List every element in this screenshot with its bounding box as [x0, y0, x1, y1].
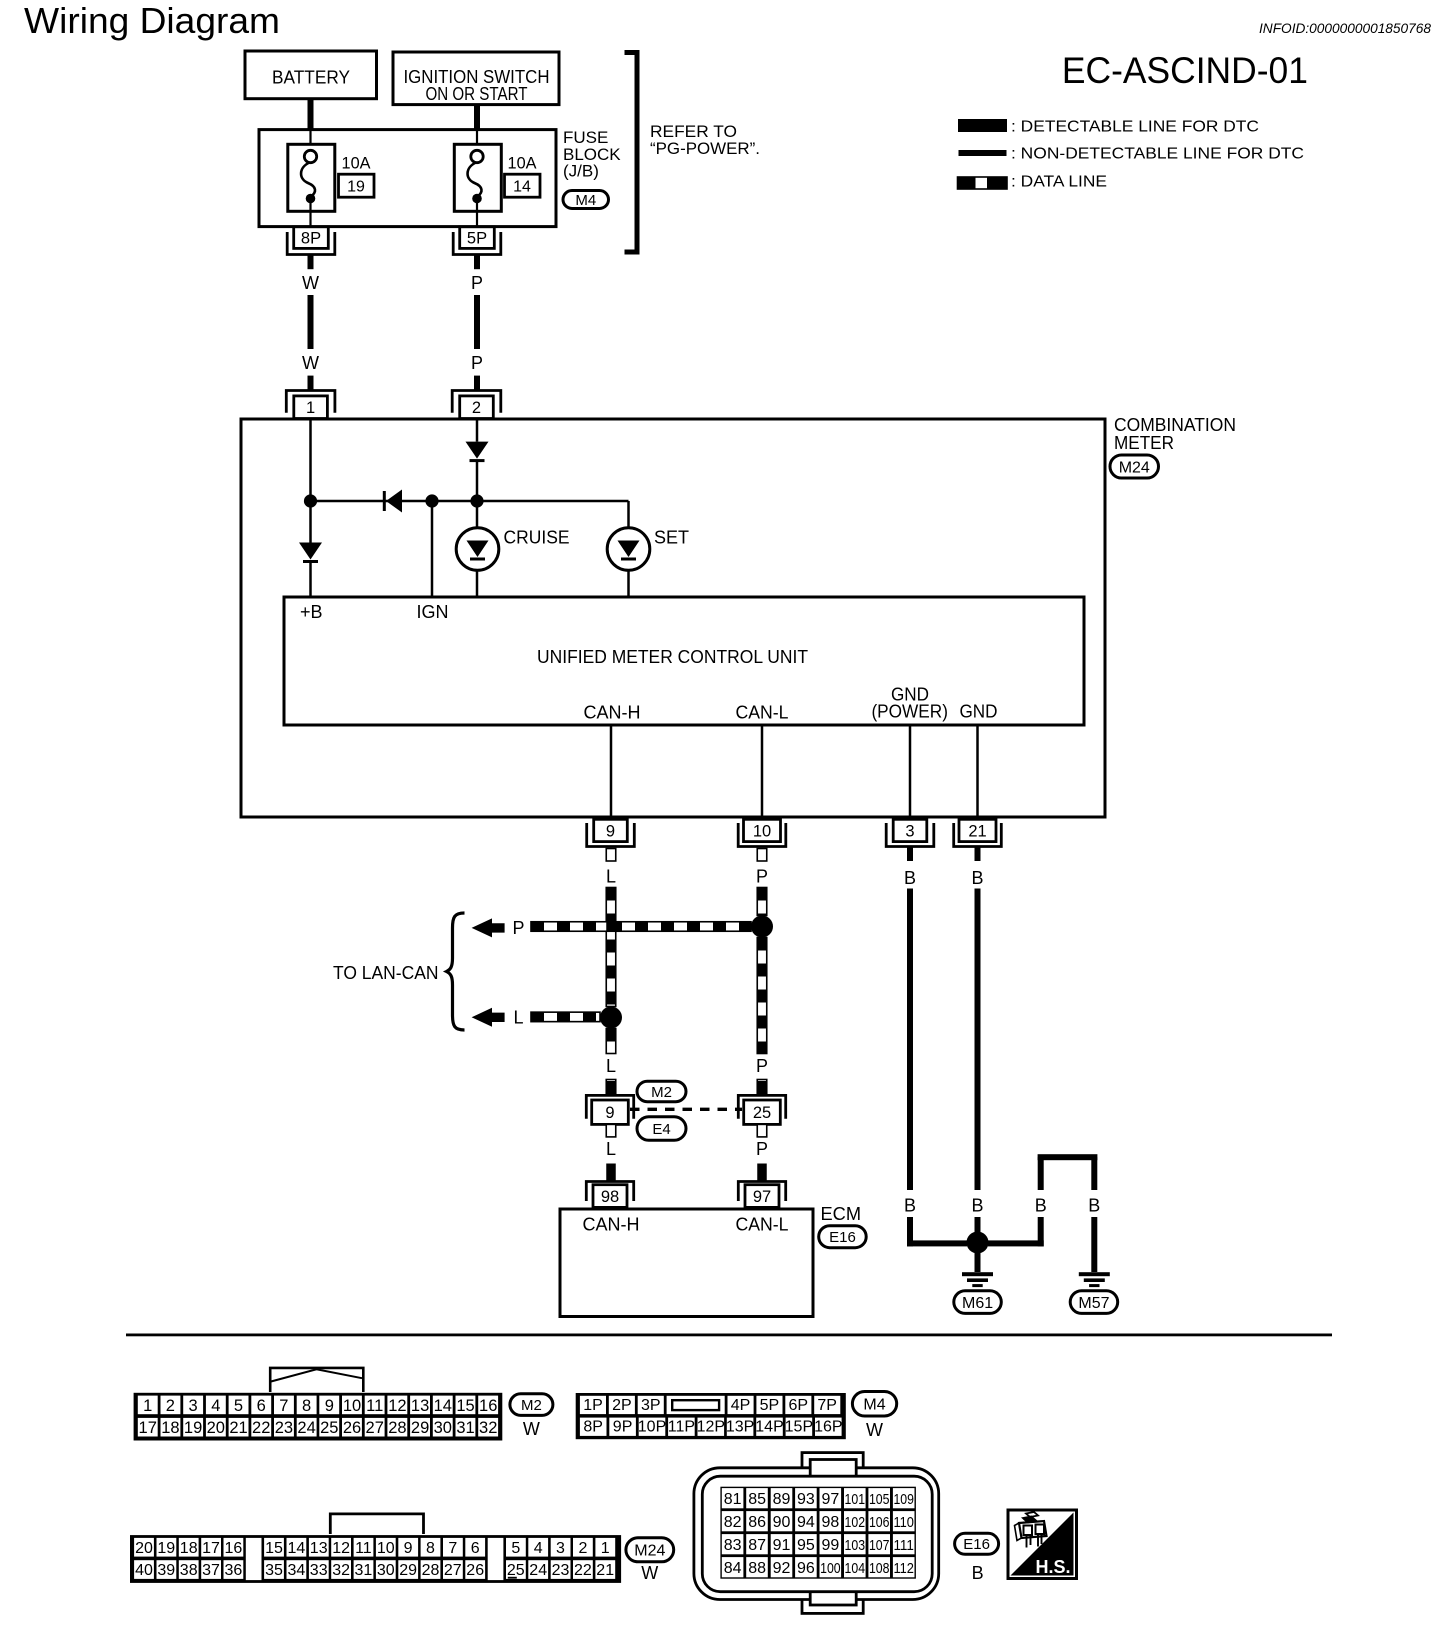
- svg-text:105: 105: [869, 1491, 890, 1508]
- wire color label B (branch right): [1088, 1196, 1100, 1216]
- svg-text:B: B: [971, 1196, 983, 1216]
- svg-text:4: 4: [534, 1540, 543, 1557]
- svg-text:W: W: [302, 353, 319, 373]
- wire GND(POWER) to pin 3: [909, 725, 912, 819]
- svg-text:29: 29: [411, 1419, 429, 1437]
- svg-text:CAN-H: CAN-H: [583, 1215, 640, 1235]
- svg-text:11: 11: [366, 1397, 383, 1415]
- svg-text:P: P: [756, 1056, 768, 1076]
- svg-text:B: B: [972, 1563, 984, 1583]
- connector view M4 grid: [576, 1393, 846, 1439]
- svg-text:109: 109: [893, 1491, 914, 1508]
- svg-text:(J/B): (J/B): [563, 162, 599, 181]
- svg-text:85: 85: [748, 1491, 766, 1508]
- wire color label B (branch left): [1035, 1196, 1047, 1216]
- svg-text:SET: SET: [654, 528, 689, 548]
- pin label GND (POWER): [871, 685, 948, 722]
- svg-text:L: L: [513, 1007, 523, 1027]
- wire SET lamp to control unit: [627, 570, 630, 597]
- label P (arrow): [512, 918, 524, 938]
- svg-text:15: 15: [265, 1540, 283, 1557]
- svg-text:B: B: [1088, 1196, 1100, 1216]
- svg-text:IGN: IGN: [417, 602, 449, 622]
- wire color label B (pin 3 lower): [904, 1196, 916, 1216]
- svg-text:15P: 15P: [785, 1419, 813, 1436]
- svg-text:30: 30: [434, 1419, 452, 1437]
- junction dot CAN-H / LAN L: [600, 1007, 622, 1029]
- wire color label W (lower): [302, 353, 319, 373]
- svg-text:88: 88: [748, 1560, 766, 1577]
- svg-text:84: 84: [724, 1560, 742, 1577]
- connector view E16 pin grid: [720, 1487, 916, 1579]
- svg-text:108: 108: [869, 1560, 890, 1577]
- svg-text:W: W: [302, 273, 319, 293]
- data line CAN-L into 25 connector: [757, 1080, 767, 1095]
- svg-text:W: W: [523, 1419, 540, 1439]
- svg-text:8P: 8P: [583, 1419, 603, 1436]
- wire W from 8P to connector 1: [308, 255, 314, 391]
- data line arrow P to junction: [531, 922, 751, 932]
- svg-text:20: 20: [135, 1540, 153, 1557]
- wire IGN from bus to control unit: [431, 501, 434, 597]
- svg-text:H.S.: H.S.: [1035, 1557, 1070, 1577]
- svg-text:B: B: [904, 1196, 916, 1216]
- label L (arrow): [513, 1007, 523, 1027]
- svg-text:39: 39: [157, 1562, 175, 1579]
- svg-text:6P: 6P: [789, 1397, 809, 1414]
- svg-text:12: 12: [332, 1540, 350, 1557]
- svg-text:CAN-H: CAN-H: [584, 703, 641, 723]
- connector view M2 keying tab: [270, 1368, 363, 1392]
- svg-text:32: 32: [479, 1419, 497, 1437]
- wire CRUISE lamp to control unit: [476, 570, 479, 597]
- svg-text:P: P: [471, 273, 483, 293]
- color label B (E16 view): [972, 1563, 984, 1583]
- svg-text:W: W: [866, 1420, 883, 1440]
- junction dot pin2/cruise tap: [470, 494, 483, 507]
- svg-text:E4: E4: [652, 1121, 670, 1138]
- svg-text:98: 98: [822, 1514, 840, 1531]
- svg-text:: NON-DETECTABLE LINE FOR DTC: : NON-DETECTABLE LINE FOR DTC: [1011, 146, 1304, 163]
- svg-text:2P: 2P: [612, 1397, 632, 1414]
- svg-text:86: 86: [748, 1514, 766, 1531]
- connector pin 21 (meter): [954, 819, 1002, 846]
- svg-text:10: 10: [343, 1397, 361, 1415]
- legend detectable line symbol: [958, 119, 1007, 132]
- svg-text:23: 23: [275, 1419, 293, 1437]
- diode D3 (+B branch): [299, 543, 322, 564]
- svg-text:12P: 12P: [697, 1419, 725, 1436]
- CRUISE indicator lamp: [456, 528, 499, 571]
- svg-text:17: 17: [139, 1419, 157, 1437]
- wire B pin 21 to junction: [975, 1217, 981, 1233]
- svg-text:“PG-POWER”.: “PG-POWER”.: [650, 139, 760, 158]
- ECM pin label CAN-L: [736, 1215, 789, 1235]
- data line stub below pin 10: [757, 849, 767, 862]
- svg-text:1P: 1P: [583, 1397, 603, 1414]
- wire color label P (upper): [471, 273, 483, 293]
- svg-text:102: 102: [845, 1514, 866, 1531]
- svg-text:13: 13: [411, 1397, 429, 1415]
- svg-text:27: 27: [366, 1419, 384, 1437]
- connector view M24 keying tab: [330, 1514, 423, 1534]
- data line into pin 98: [606, 1164, 616, 1181]
- svg-text:B: B: [1035, 1196, 1047, 1216]
- pin label CAN-L: [736, 703, 789, 723]
- svg-text:3: 3: [556, 1540, 565, 1557]
- unified meter control unit box: [284, 597, 1084, 725]
- wire P from 5P to connector 2: [474, 255, 480, 391]
- data line CAN-H below junction: [606, 1029, 616, 1054]
- svg-text:112: 112: [893, 1560, 914, 1577]
- wire bus to SET lamp: [627, 501, 630, 528]
- svg-text:9: 9: [605, 1104, 614, 1122]
- wire B pin 3 to junction: [907, 1217, 967, 1246]
- svg-text:111: 111: [893, 1537, 914, 1554]
- label TO LAN-CAN: [333, 963, 439, 983]
- pin label CAN-H: [584, 703, 641, 723]
- svg-text:9: 9: [606, 822, 615, 840]
- svg-text:M24: M24: [1119, 459, 1150, 476]
- connector id M2 oval: [637, 1081, 686, 1102]
- svg-text:16: 16: [225, 1540, 243, 1557]
- svg-text:38: 38: [180, 1562, 198, 1579]
- svg-text:23: 23: [552, 1562, 570, 1579]
- svg-text:16: 16: [479, 1397, 497, 1415]
- wire B from pin 21 (upper stub): [975, 847, 981, 862]
- svg-text:ECM: ECM: [821, 1204, 862, 1224]
- svg-text:10: 10: [377, 1540, 395, 1557]
- svg-text:L: L: [606, 867, 616, 887]
- bracket refer to PG-POWER: [625, 50, 640, 255]
- wire color label L (below pin 9): [606, 867, 616, 887]
- svg-text:32: 32: [332, 1562, 350, 1579]
- fuse block label: [563, 128, 621, 181]
- wire color label P (above 25): [756, 1056, 768, 1076]
- svg-text:82: 82: [724, 1514, 742, 1531]
- svg-text:M57: M57: [1078, 1295, 1109, 1312]
- svg-text:B: B: [904, 868, 916, 888]
- svg-text:L: L: [606, 1056, 616, 1076]
- ignition switch box: [393, 52, 559, 105]
- svg-text:TO LAN-CAN: TO LAN-CAN: [333, 963, 439, 983]
- svg-text:94: 94: [797, 1514, 815, 1531]
- svg-text:14P: 14P: [755, 1419, 783, 1436]
- svg-text:34: 34: [288, 1562, 306, 1579]
- svg-text:13: 13: [310, 1540, 328, 1557]
- svg-text:M4: M4: [863, 1397, 885, 1414]
- svg-text:35: 35: [265, 1562, 283, 1579]
- wire B branch right to ground M57: [1091, 1217, 1097, 1272]
- svg-text:+B: +B: [300, 602, 323, 622]
- wire color label P (below pin 10): [756, 867, 768, 887]
- wire battery to fuse block (W thick): [308, 99, 314, 131]
- wire +B branch vertical (pin1 down): [309, 419, 312, 543]
- svg-text:91: 91: [773, 1537, 791, 1554]
- svg-text:COMBINATION: COMBINATION: [1114, 415, 1236, 435]
- title Wiring Diagram: [24, 0, 280, 41]
- combination meter label: [1114, 415, 1236, 453]
- svg-text:98: 98: [601, 1188, 619, 1206]
- svg-text:25: 25: [320, 1419, 338, 1437]
- data line into pin 97: [757, 1164, 767, 1181]
- combination meter box: [241, 419, 1105, 817]
- svg-text:: DETECTABLE LINE FOR DTC: : DETECTABLE LINE FOR DTC: [1011, 119, 1259, 136]
- svg-text:87: 87: [748, 1537, 766, 1554]
- INFOID number: [1259, 20, 1431, 36]
- svg-text:31: 31: [355, 1562, 373, 1579]
- svg-text:P: P: [471, 353, 483, 373]
- svg-text:UNIFIED METER CONTROL UNIT: UNIFIED METER CONTROL UNIT: [537, 647, 808, 667]
- svg-text:100: 100: [820, 1560, 841, 1577]
- svg-text:20: 20: [207, 1419, 225, 1437]
- svg-text:25: 25: [753, 1104, 771, 1122]
- svg-text:29: 29: [399, 1562, 417, 1579]
- svg-text:14: 14: [434, 1397, 452, 1415]
- svg-text:7P: 7P: [817, 1397, 837, 1414]
- H.S. view icon: [1008, 1510, 1077, 1579]
- wire color label B (pin 21 upper): [971, 868, 983, 888]
- wire color label W (upper): [302, 273, 319, 293]
- diode D2 (horizontal, pointing left): [383, 490, 402, 513]
- wire color label B (pin 3 upper): [904, 868, 916, 888]
- svg-text:89: 89: [773, 1491, 791, 1508]
- ground symbol M61: [962, 1272, 993, 1287]
- wire color label P (above ECM): [756, 1139, 768, 1159]
- svg-text:11: 11: [355, 1540, 372, 1557]
- junction dot IGN tap: [425, 494, 438, 507]
- svg-text:40: 40: [135, 1562, 153, 1579]
- connector id M24 oval (meter): [1110, 455, 1159, 478]
- pin label +B: [300, 602, 323, 622]
- wire D3 to +B pin: [309, 563, 312, 597]
- fuse 14 10A: [454, 131, 501, 228]
- data line CAN-L upper segment: [757, 888, 767, 916]
- data line arrow L to junction: [531, 1012, 600, 1022]
- wire diode D1 to bus: [476, 462, 479, 501]
- svg-text:13P: 13P: [726, 1419, 754, 1436]
- svg-text:83: 83: [724, 1537, 742, 1554]
- svg-text:37: 37: [202, 1562, 220, 1579]
- wire pin2 down: [476, 419, 479, 442]
- data line CAN-L below junction: [757, 938, 767, 1054]
- svg-text:CRUISE: CRUISE: [504, 528, 570, 548]
- ground junction dot: [967, 1232, 989, 1254]
- svg-text:EC-ASCIND-01: EC-ASCIND-01: [1062, 50, 1308, 91]
- color label W (M2 view): [523, 1419, 540, 1439]
- fuse block box: [259, 130, 556, 227]
- pin label IGN: [417, 602, 449, 622]
- svg-text:M4: M4: [575, 192, 596, 209]
- svg-text:10P: 10P: [638, 1419, 666, 1436]
- svg-text:P: P: [756, 1139, 768, 1159]
- color label W (M24 view): [641, 1563, 658, 1583]
- svg-text:M61: M61: [962, 1295, 993, 1312]
- connector 8P: [287, 227, 335, 255]
- svg-text:18: 18: [161, 1419, 179, 1437]
- fuse 14 number box: [505, 174, 541, 197]
- svg-text:30: 30: [377, 1562, 395, 1579]
- connector id M24 oval (view): [626, 1538, 674, 1562]
- svg-text:5: 5: [234, 1397, 243, 1415]
- diode D1 (pin 2 line): [466, 442, 489, 463]
- svg-text:3: 3: [905, 822, 914, 840]
- svg-text:3P: 3P: [641, 1397, 661, 1414]
- label CRUISE: [504, 528, 570, 548]
- legend detectable line text: [1011, 119, 1259, 136]
- battery box: [245, 51, 377, 99]
- connector id M2 oval (view): [510, 1394, 553, 1416]
- svg-text:22: 22: [574, 1562, 592, 1579]
- svg-text:19: 19: [157, 1540, 175, 1557]
- svg-text:9: 9: [325, 1397, 334, 1415]
- svg-text:1: 1: [306, 399, 315, 417]
- svg-text:4: 4: [211, 1397, 220, 1415]
- legend data line symbol: [958, 177, 1008, 189]
- svg-text:107: 107: [869, 1537, 890, 1554]
- svg-text:W: W: [641, 1563, 658, 1583]
- arrow L to LAN-CAN: [472, 1008, 505, 1027]
- connector 5P: [453, 227, 501, 255]
- wire B from pin 3 (upper stub): [907, 847, 913, 862]
- svg-text:14: 14: [288, 1540, 306, 1557]
- connector pin 9 (meter): [587, 819, 635, 846]
- fuse 14 label 10A: [508, 154, 538, 173]
- connector id E4 oval: [637, 1117, 686, 1141]
- svg-text:101: 101: [845, 1491, 866, 1508]
- svg-text:81: 81: [724, 1491, 742, 1508]
- wire B branch left to junction: [988, 1217, 1044, 1246]
- inline connector 25 (M2/E4): [738, 1095, 785, 1124]
- svg-text:7: 7: [448, 1540, 457, 1557]
- svg-text:6: 6: [471, 1540, 480, 1557]
- svg-text:(POWER): (POWER): [871, 702, 948, 722]
- svg-text:M24: M24: [634, 1543, 665, 1560]
- data line CAN-H into M2 connector: [606, 1080, 616, 1095]
- connector id M4 oval (fuse block): [563, 191, 609, 209]
- wire B pin 21 long: [975, 889, 981, 1191]
- legend data line text: [1011, 174, 1107, 191]
- junction dot +B bus: [304, 494, 317, 507]
- pin label GND: [960, 702, 998, 722]
- wire color label L (above ECM): [606, 1139, 616, 1159]
- svg-text:8P: 8P: [301, 230, 321, 248]
- svg-text:22: 22: [252, 1419, 270, 1437]
- label SET: [654, 528, 689, 548]
- svg-text:24: 24: [297, 1419, 315, 1437]
- svg-text:97: 97: [753, 1188, 771, 1206]
- svg-text:17: 17: [202, 1540, 220, 1557]
- svg-text:33: 33: [310, 1562, 328, 1579]
- svg-text:19: 19: [347, 179, 365, 196]
- svg-text:99: 99: [822, 1537, 840, 1554]
- connector pin 97 (ECM): [738, 1182, 785, 1208]
- connector pin 2 (combination meter): [452, 391, 501, 419]
- wire color label L (above M2): [606, 1056, 616, 1076]
- svg-text:12: 12: [388, 1397, 406, 1415]
- svg-text:CAN-L: CAN-L: [736, 1215, 789, 1235]
- connector view E16 bottom tab inner: [810, 1585, 856, 1605]
- wire color label P (lower): [471, 353, 483, 373]
- dotted line between connector 9 and 25: [630, 1108, 742, 1111]
- wire CAN-L to pin 10: [761, 725, 764, 819]
- svg-text:M2: M2: [521, 1397, 542, 1414]
- svg-text:19: 19: [184, 1419, 202, 1437]
- inline connector 9 (M2/E4): [586, 1095, 633, 1124]
- svg-text:P: P: [512, 918, 524, 938]
- SET indicator lamp: [607, 528, 650, 571]
- data line CAN-H upper segment: [606, 888, 616, 1007]
- ground id M61 oval: [954, 1291, 1002, 1314]
- svg-text:B: B: [971, 868, 983, 888]
- horizontal bus wire y=501: [311, 500, 629, 503]
- fuse 19 label 10A: [342, 154, 372, 173]
- svg-text:5: 5: [511, 1540, 520, 1557]
- svg-text:INFOID:0000000001850768: INFOID:0000000001850768: [1259, 20, 1431, 36]
- fuse 19 number box: [339, 174, 375, 197]
- svg-text:97: 97: [822, 1491, 840, 1508]
- svg-text:25: 25: [507, 1562, 525, 1579]
- ground symbol M57: [1079, 1272, 1110, 1287]
- label ECM: [821, 1204, 862, 1224]
- color label W (M4 view): [866, 1420, 883, 1440]
- wire B pin 3 long: [907, 889, 913, 1191]
- wire ignition switch to fuse block (thick): [474, 105, 480, 131]
- data line below connector 25: [757, 1124, 767, 1137]
- svg-text:93: 93: [797, 1491, 815, 1508]
- connector id E16 oval (ECM): [819, 1226, 867, 1248]
- svg-text:28: 28: [422, 1562, 440, 1579]
- svg-text:9P: 9P: [613, 1419, 633, 1436]
- svg-text:10: 10: [753, 822, 771, 840]
- connector id E16 oval (view): [955, 1533, 999, 1554]
- wire CAN-H to pin 9: [610, 725, 613, 819]
- svg-text:106: 106: [869, 1514, 890, 1531]
- arrow P to LAN-CAN: [472, 918, 505, 937]
- svg-text:2: 2: [472, 399, 481, 417]
- svg-text:92: 92: [773, 1560, 791, 1577]
- svg-text:26: 26: [466, 1562, 484, 1579]
- connector view E16 inner shell: [702, 1476, 932, 1592]
- svg-text:P: P: [756, 867, 768, 887]
- svg-text:6: 6: [257, 1397, 266, 1415]
- svg-text:4P: 4P: [731, 1397, 751, 1414]
- svg-text:E16: E16: [963, 1536, 990, 1553]
- connector view E16 outer shell: [694, 1468, 939, 1600]
- svg-text:96: 96: [797, 1560, 815, 1577]
- heading EC-ASCIND-01: [1062, 50, 1308, 91]
- svg-text:E16: E16: [829, 1229, 856, 1246]
- ground id M57 oval: [1070, 1291, 1118, 1314]
- svg-text:90: 90: [773, 1514, 791, 1531]
- svg-text:18: 18: [180, 1540, 198, 1557]
- connector view E16 bottom tab: [802, 1594, 863, 1613]
- svg-text:21: 21: [968, 822, 986, 840]
- svg-text:14: 14: [513, 179, 531, 196]
- wire junction to ground M61: [975, 1253, 981, 1272]
- svg-text:15: 15: [456, 1397, 474, 1415]
- svg-text:36: 36: [225, 1562, 243, 1579]
- ECM pin label CAN-H: [583, 1215, 640, 1235]
- svg-text:21: 21: [229, 1419, 247, 1437]
- wire GND to pin 21: [976, 725, 979, 819]
- svg-text:METER: METER: [1114, 433, 1174, 453]
- svg-text:8: 8: [426, 1540, 435, 1557]
- connector view E16 top tab: [802, 1453, 863, 1473]
- svg-text:104: 104: [845, 1560, 866, 1577]
- svg-text:CAN-L: CAN-L: [736, 703, 789, 723]
- svg-text:110: 110: [893, 1514, 914, 1531]
